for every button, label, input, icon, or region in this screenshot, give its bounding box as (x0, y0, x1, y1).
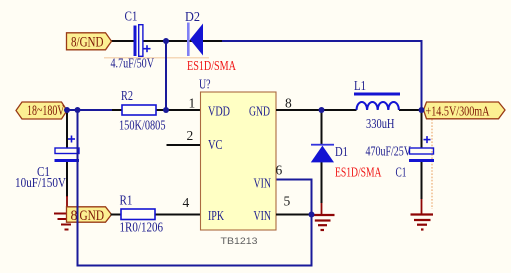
svg-text:470uF/25V: 470uF/25V (366, 145, 412, 160)
svg-text:6: 6 (276, 163, 283, 178)
power port 8/GND (top) (67, 33, 112, 51)
wire left black branch down to cap (66, 110, 68, 148)
svg-text:18~180V: 18~180V (27, 103, 65, 119)
svg-text:8/GND: 8/GND (71, 34, 104, 50)
svg-text:4.7uF/50V: 4.7uF/50V (111, 57, 155, 72)
wire L1 to output node (399, 109, 422, 111)
svg-text:10uF/150V: 10uF/150V (15, 176, 66, 191)
node pin5/rail junction (309, 212, 315, 218)
svg-text:330uH: 330uH (366, 117, 395, 132)
capacitor C1 470uF/25V (409, 136, 434, 162)
power port 8/GND (bottom) (67, 207, 112, 224)
svg-text:ES1D/SMA: ES1D/SMA (335, 165, 382, 180)
pin 2 stub (167, 144, 201, 146)
ground (left, under 10uF cap) (54, 196, 71, 230)
svg-text:TB1213: TB1213 (221, 236, 258, 247)
node output junction (419, 107, 425, 113)
node at 18~180V split (rail branch) (75, 107, 81, 113)
wire rail over label (77, 205, 79, 223)
svg-text:5: 5 (284, 194, 291, 209)
resistor R2 (122, 105, 156, 115)
svg-text:VIN: VIN (254, 177, 272, 192)
node R2/pin1 junction (163, 107, 169, 113)
power port +14.5V/300mA (424, 102, 506, 119)
artifact orange underline (104, 57, 209, 59)
pin stub R2 left (112, 109, 122, 111)
wire pin8 node to L1 (322, 109, 357, 111)
svg-text:VIN: VIN (254, 209, 272, 224)
svg-text:150K/0805: 150K/0805 (119, 119, 166, 134)
resistor R1 (121, 209, 155, 220)
capacitor C1 10uF/150V (55, 136, 80, 163)
node at 18~180V split (black branch) (64, 107, 70, 113)
power port 18~180V (16, 102, 67, 119)
svg-text:C1: C1 (396, 166, 407, 181)
svg-text:L1: L1 (354, 79, 366, 94)
svg-text:C1: C1 (125, 10, 138, 25)
wire R1 row (111, 214, 122, 216)
svg-text:D2: D2 (185, 10, 200, 25)
svg-text:R1: R1 (120, 194, 133, 209)
svg-text:GND: GND (249, 105, 270, 120)
op-amp U1 / IC U? TB1213 (201, 92, 277, 230)
svg-text:VDD: VDD (208, 105, 230, 120)
wire top-right navy with corner down to output node (222, 41, 422, 110)
inductor L1 (354, 93, 400, 111)
svg-text:8: 8 (285, 96, 292, 111)
diode D1 (311, 144, 334, 163)
svg-text:4: 4 (183, 195, 190, 210)
svg-text:IPK: IPK (208, 209, 224, 224)
wire navy rail: pin6 right, down, bottom rail, up left side (78, 110, 312, 266)
ground (under 470uF cap) (411, 199, 434, 230)
wire D1 branch vertical (321, 110, 323, 145)
svg-text:ES1D/SMA: ES1D/SMA (187, 59, 237, 74)
svg-text:+14.5V/300mA: +14.5V/300mA (426, 104, 491, 119)
pin 5 stub (276, 214, 312, 216)
node top C1/D2 junction (163, 38, 169, 44)
svg-text:U?: U? (199, 78, 211, 93)
ground (under D1) (312, 203, 335, 230)
svg-text:1R0/1206: 1R0/1206 (120, 221, 164, 236)
svg-text:GND: GND (80, 208, 105, 224)
node pin8/D1 junction (319, 107, 325, 113)
pin 8 wire (276, 109, 322, 111)
wire vertical from top junction to R2 junction (165, 41, 167, 110)
diode D2 (187, 23, 203, 57)
svg-text:D1: D1 (335, 145, 348, 160)
capacitor C1 4.7uF/50V (134, 25, 151, 57)
wire R2 to pin 1 (156, 109, 200, 111)
wire top row black (8/GND to D2 region) (111, 40, 134, 42)
svg-text:1: 1 (189, 96, 196, 111)
wire output node down to 470uF cap (421, 112, 423, 148)
artifact orange dotted vertical (431, 119, 433, 209)
wire mid row navy (label to R2) (65, 109, 113, 111)
svg-text:2: 2 (187, 128, 194, 143)
svg-text:VC: VC (208, 138, 223, 153)
svg-text:8: 8 (71, 208, 78, 224)
svg-text:R2: R2 (121, 89, 133, 104)
